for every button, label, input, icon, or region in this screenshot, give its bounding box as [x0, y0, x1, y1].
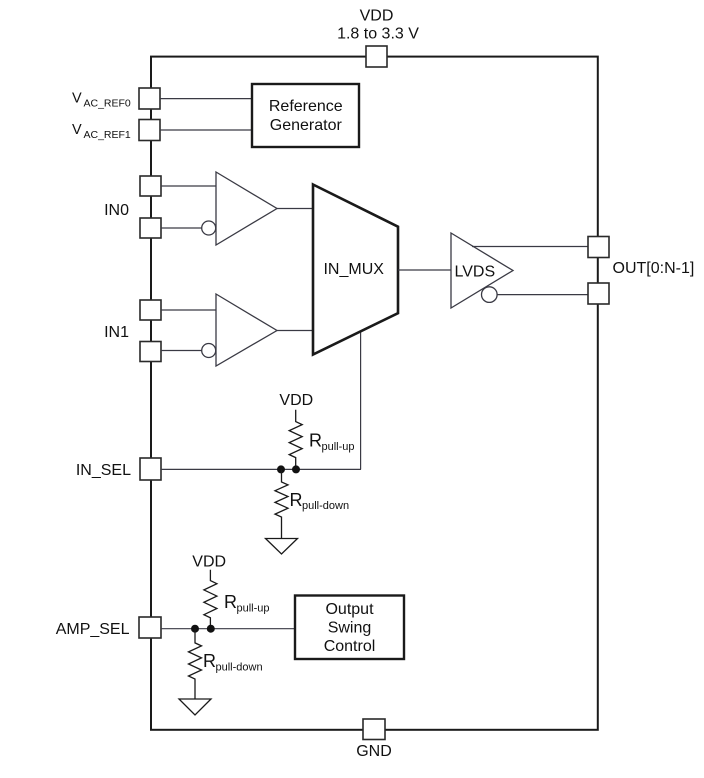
svg-text:Swing: Swing — [328, 620, 372, 637]
junction dot pull-up (IN_SEL) — [292, 465, 300, 473]
svg-text:LVDS: LVDS — [455, 264, 496, 281]
svg-text:VDD: VDD — [360, 7, 394, 24]
svg-text:AC_REF0: AC_REF0 — [84, 98, 131, 110]
pin IN0 positive — [140, 176, 161, 196]
svg-text:AC_REF1: AC_REF1 — [84, 129, 131, 141]
svg-text:Control: Control — [324, 638, 376, 655]
svg-text:V: V — [72, 91, 82, 107]
wire AMP_SEL net — [161, 628, 296, 630]
resistor Rpull-up (IN_SEL) — [289, 410, 302, 470]
svg-text:VDD: VDD — [192, 554, 226, 571]
wire IN1+ to buffer — [161, 309, 217, 311]
pin OUT positive — [588, 237, 609, 258]
pin GND — [363, 719, 385, 740]
svg-text:pull-up: pull-up — [237, 603, 270, 615]
inversion bubble IN1 — [202, 344, 216, 358]
LVDS driver U-LVDS — [451, 233, 513, 308]
svg-text:R: R — [309, 431, 322, 451]
svg-text:pull-down: pull-down — [302, 500, 349, 512]
block Reference Generator — [252, 84, 359, 147]
wire IN0+ to buffer — [161, 185, 217, 187]
wire LVDS complement output — [497, 294, 589, 296]
svg-text:R: R — [290, 490, 303, 510]
svg-text:Output: Output — [325, 601, 374, 618]
junction dot pull-down (AMP_SEL) — [191, 625, 199, 633]
multiplexer IN_MUX — [313, 185, 398, 355]
inversion bubble LVDS — [482, 287, 498, 303]
resistor Rpull-up (AMP_SEL) — [204, 570, 217, 629]
resistor Rpull-down (AMP_SEL) — [189, 629, 202, 699]
svg-text:IN_SEL: IN_SEL — [76, 462, 131, 479]
wire IN_SEL select line to mux — [360, 332, 362, 469]
wire buffer IN1 to mux — [277, 330, 314, 332]
buffer amplifier IN1 — [216, 294, 277, 366]
svg-text:OUT[0:N-1]: OUT[0:N-1] — [613, 260, 695, 277]
svg-text:R: R — [203, 651, 216, 671]
pin VAC_REF1 — [139, 120, 160, 141]
svg-text:Reference: Reference — [269, 98, 343, 115]
wire buffer IN0 to mux — [277, 208, 314, 210]
inversion bubble IN0 — [202, 221, 216, 235]
pin VDD — [366, 46, 387, 67]
label Rpull-up (AMP_SEL) — [224, 592, 270, 615]
pin OUT negative — [588, 283, 609, 304]
VDD supply label — [337, 7, 419, 42]
svg-text:Generator: Generator — [270, 117, 343, 134]
wire IN_SEL net — [161, 468, 361, 470]
svg-text:V: V — [72, 122, 82, 138]
wire VAC_REF0 to reference generator — [160, 98, 253, 100]
ground symbol (AMP_SEL) — [179, 699, 211, 715]
svg-text:R: R — [224, 592, 237, 612]
svg-text:1.8 to 3.3 V: 1.8 to 3.3 V — [337, 25, 419, 42]
svg-text:IN_MUX: IN_MUX — [323, 261, 384, 278]
block Output Swing Control — [295, 596, 404, 660]
wire LVDS true output — [472, 246, 589, 248]
label VAC_REF1 — [72, 122, 131, 141]
svg-text:pull-up: pull-up — [322, 441, 355, 453]
svg-text:AMP_SEL: AMP_SEL — [56, 621, 130, 638]
pin IN1 positive — [140, 300, 161, 320]
ground symbol (IN_SEL) — [266, 539, 298, 555]
svg-text:GND: GND — [356, 743, 392, 760]
pin IN1 negative — [140, 342, 161, 362]
svg-text:IN0: IN0 — [104, 202, 129, 219]
junction dot pull-down (IN_SEL) — [277, 465, 285, 473]
svg-text:IN1: IN1 — [104, 324, 129, 341]
wire IN0- to bubble — [161, 227, 202, 229]
label Rpull-down (AMP_SEL) — [203, 651, 263, 674]
svg-text:VDD: VDD — [279, 392, 313, 409]
resistor Rpull-down (IN_SEL) — [275, 469, 288, 538]
pin IN_SEL — [140, 458, 161, 480]
wire IN1- to bubble — [161, 350, 202, 352]
svg-text:pull-down: pull-down — [216, 662, 263, 674]
junction dot pull-up (AMP_SEL) — [207, 625, 215, 633]
wire mux to LVDS — [398, 269, 452, 271]
pin VAC_REF0 — [139, 88, 160, 109]
pin AMP_SEL — [139, 617, 161, 638]
pin IN0 negative — [140, 218, 161, 238]
label VAC_REF0 — [72, 91, 131, 110]
chip outline — [151, 57, 598, 730]
buffer amplifier IN0 — [216, 172, 277, 245]
label Rpull-up (IN_SEL) — [309, 431, 355, 453]
wire VAC_REF1 to reference generator — [160, 129, 253, 131]
label Rpull-down (IN_SEL) — [290, 490, 350, 512]
